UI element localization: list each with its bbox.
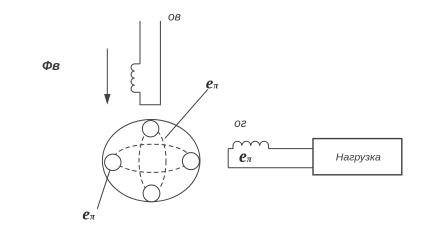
- pole conductor circle top: [142, 121, 158, 137]
- wire: bottom conductor to load: [228, 167, 313, 169]
- flux arrow Фв: [106, 49, 108, 97]
- wire: left vertical conductor of OG loop: [227, 149, 229, 168]
- pole conductor circle bottom: [143, 185, 160, 202]
- load box: [313, 139, 402, 175]
- rotor winding loop horizontal (dashed): [114, 144, 190, 172]
- svg-text:ов: ов: [168, 9, 181, 23]
- svg-text:eπ: eπ: [206, 73, 220, 92]
- svg-text:Нагрузка: Нагрузка: [336, 152, 381, 164]
- wire: bottom and right lead of OV winding: [140, 21, 160, 105]
- leader line to top-right emf label: [165, 89, 208, 138]
- pole conductor circle right: [182, 153, 199, 170]
- inductor L2 generator winding OG (4 bumps): [228, 141, 268, 148]
- svg-text:eπ: eπ: [239, 146, 253, 166]
- rotor outline (stator bore): [102, 120, 200, 202]
- svg-text:Фв: Фв: [42, 58, 60, 73]
- pole conductor circle left: [105, 154, 121, 170]
- wire: left lead of field winding OV: [139, 21, 141, 64]
- wire: top conductor to load: [269, 148, 313, 150]
- rotor winding loop vertical (dashed): [139, 129, 166, 193]
- inductor L1 field winding OV (4 bumps): [131, 64, 140, 92]
- leader line to bottom-left emf label: [97, 169, 110, 209]
- svg-text:ог: ог: [234, 118, 246, 130]
- svg-text:eπ: eπ: [82, 204, 96, 223]
